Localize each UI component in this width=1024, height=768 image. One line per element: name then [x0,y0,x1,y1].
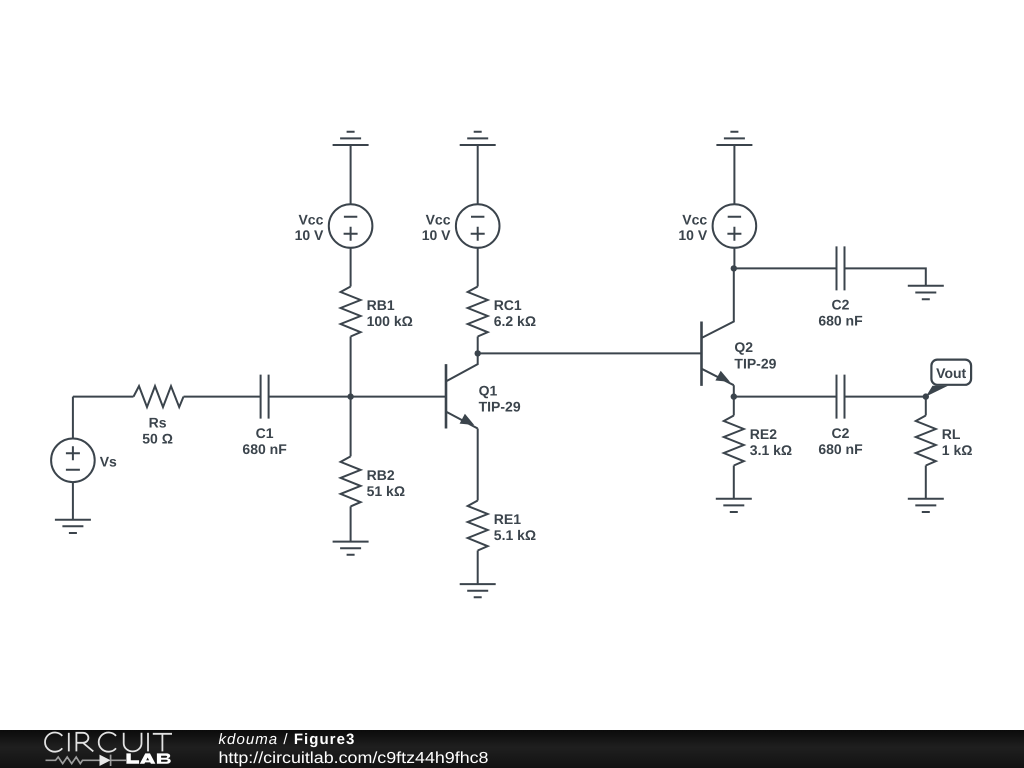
resistor RE1 [468,501,488,551]
ground below RL [908,499,944,512]
svg-text:C2: C2 [832,425,850,441]
wire node to RL [925,397,927,416]
resistor RB1 [341,287,361,337]
svg-text:Vcc: Vcc [682,211,707,227]
transistor Q2 [702,268,734,386]
svg-text:RE1: RE1 [494,511,521,527]
wire C1 to Q1 base [269,396,446,398]
svg-text:10 V: 10 V [422,227,451,243]
wire C2 bottom to RL node [845,396,926,398]
resistor RC1 [468,287,488,337]
ground above Vcc1 [333,132,369,145]
flag Vout [926,360,971,397]
wire C2 top to ground [845,268,926,285]
voltage source Vs [51,439,95,483]
svg-text:10 V: 10 V [295,227,324,243]
wire RB2 to ground [350,506,352,541]
svg-text:kdouma / Figure3: kdouma / Figure3 [219,731,356,748]
svg-text:RB1: RB1 [367,297,395,313]
svg-text:100 kΩ: 100 kΩ [367,313,413,329]
ground above Vcc3 [716,132,752,145]
logo resistor-diode line [46,755,127,766]
ground top right [908,286,944,299]
wire RB1 to junction [350,337,352,457]
ground below RB2 [333,542,369,555]
wire Vcc2 to RC1 [477,248,479,287]
svg-text:1 kΩ: 1 kΩ [942,442,973,458]
wire RE1 to ground [477,551,479,585]
voltage source Vcc1 [329,204,373,248]
resistor RL [916,416,936,466]
svg-text:Q1: Q1 [479,382,498,398]
wire RE2 to ground [733,466,735,499]
svg-text:5.1 kΩ: 5.1 kΩ [494,527,536,543]
voltage source Vcc2 [456,204,500,248]
logo LAB [126,753,170,763]
node Q2 collector [731,265,737,271]
wire RC1 to collector node [477,337,479,354]
wire emitter node to C2 bottom [734,396,837,398]
svg-text:RC1: RC1 [494,297,522,313]
capacitor C2 bottom [837,375,845,419]
svg-text:50 Ω: 50 Ω [142,431,173,447]
logo CIRCUIT [45,733,172,752]
svg-text:RB2: RB2 [367,467,395,483]
wire Vcc1 to RB1 [350,248,352,287]
resistor Rs [134,386,184,407]
svg-text:Vcc: Vcc [298,211,323,227]
svg-text:C1: C1 [256,425,274,441]
svg-text:Rs: Rs [149,415,167,431]
wire ground to Vcc3 [733,145,735,204]
ground above Vcc2 [460,132,496,145]
wire Rs to C1 [184,396,261,398]
wire ground to Vcc2 [477,145,479,204]
svg-text:6.2 kΩ: 6.2 kΩ [494,313,536,329]
svg-text:680 nF: 680 nF [818,441,863,457]
node junction at RB [347,393,353,399]
transistor Q1 [446,353,478,428]
resistor RB2 [341,456,361,506]
svg-text:TIP-29: TIP-29 [479,399,521,415]
svg-text:Vout: Vout [936,365,966,381]
ground below RE1 [460,584,496,597]
svg-text:10 V: 10 V [678,227,707,243]
node Q2 emitter [731,393,737,399]
wire Vs top to rail [72,397,74,439]
wire Q1 collector node to Q2 base [478,352,702,354]
wire Vs bottom to ground [72,482,74,520]
svg-text:TIP-29: TIP-29 [734,355,776,371]
svg-text:RL: RL [942,426,961,442]
svg-text:3.1 kΩ: 3.1 kΩ [750,442,792,458]
svg-text:Vcc: Vcc [426,211,451,227]
wire Q2 emitter to node [733,385,735,415]
ground below RE2 [716,499,752,512]
svg-text:680 nF: 680 nF [242,441,287,457]
capacitor C2 top [837,246,845,290]
svg-text:Vs: Vs [100,454,117,470]
resistor RE2 [724,416,744,466]
svg-text:680 nF: 680 nF [818,313,863,329]
svg-text:51 kΩ: 51 kΩ [367,483,405,499]
node Vout [923,393,929,399]
capacitor C1 [261,375,269,419]
wire rail to Rs [73,396,134,398]
node collector Q1 [475,350,481,356]
ground below Vs [55,520,91,533]
svg-text:http://circuitlab.com/c9ftz44h: http://circuitlab.com/c9ftz44h9fhc8 [219,750,489,767]
wire Vcc3 to collector rail [733,248,735,269]
wire ground to Vcc1 [350,145,352,204]
svg-text:Q2: Q2 [734,339,753,355]
wire node to C2 top [734,267,837,269]
svg-text:RE2: RE2 [750,426,777,442]
wire Q1 emitter to RE1 [477,429,479,501]
svg-text:C2: C2 [832,297,850,313]
wire RL to ground [925,466,927,499]
voltage source Vcc3 [713,204,757,248]
